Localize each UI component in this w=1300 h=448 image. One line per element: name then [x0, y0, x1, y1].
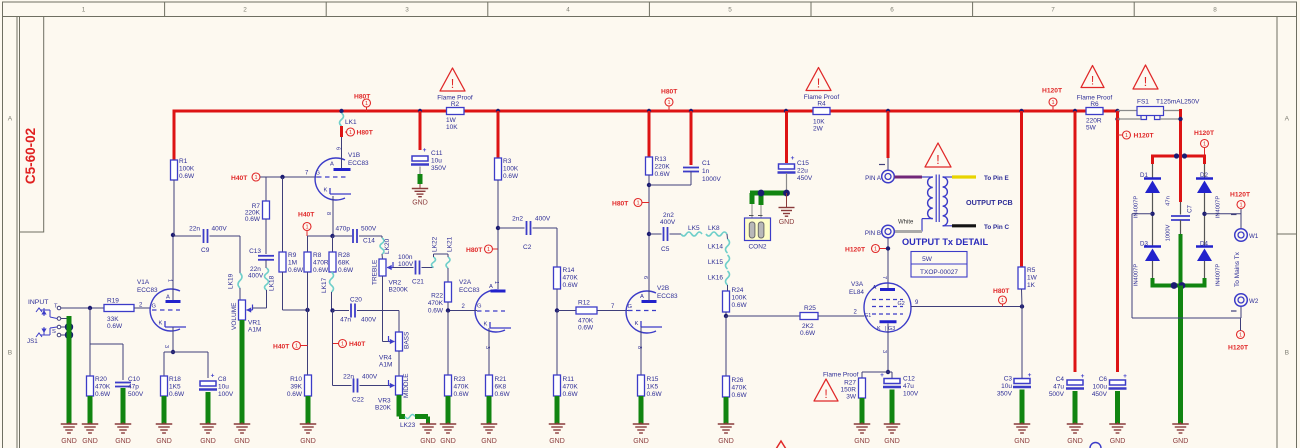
wire B+ rail — [173, 110, 1118, 113]
svg-text:0.6W: 0.6W — [563, 391, 579, 398]
wire R21 ground — [487, 396, 492, 424]
warning triangle above FS1 — [1133, 65, 1158, 89]
capacitor C15 — [778, 155, 813, 182]
svg-text:+: + — [1123, 373, 1127, 380]
wire CON2 pin leads — [749, 204, 763, 223]
svg-text:A: A — [166, 295, 170, 301]
svg-text:ECC83: ECC83 — [137, 287, 158, 294]
svg-text:|: | — [885, 326, 886, 332]
svg-text:C6: C6 — [1099, 376, 1108, 383]
label H80T LK1 — [345, 128, 374, 137]
svg-text:470K: 470K — [95, 384, 111, 391]
wire V2B anode — [642, 234, 649, 301]
svg-text:H80T: H80T — [612, 201, 629, 208]
wire C22 to VR3 wiper — [360, 385, 389, 387]
svg-text:1000V: 1000V — [1166, 224, 1172, 241]
svg-text:R1: R1 — [179, 158, 188, 165]
svg-text:+: + — [1081, 373, 1085, 380]
warning triangle bottom edge — [774, 441, 789, 448]
link LK22 — [432, 236, 449, 267]
svg-text:1: 1 — [295, 344, 298, 350]
svg-text:C21: C21 — [412, 279, 424, 286]
svg-text:INPUT: INPUT — [28, 299, 48, 306]
svg-text:1: 1 — [487, 247, 490, 253]
svg-text:1: 1 — [254, 175, 257, 181]
wire V3A G2 to R5 node — [911, 300, 1024, 309]
resistor R1 — [171, 158, 196, 180]
svg-text:0.6W: 0.6W — [563, 282, 579, 289]
ground GND C8 — [200, 422, 217, 445]
svg-text:B200K: B200K — [389, 287, 409, 294]
svg-text:1W: 1W — [1027, 275, 1038, 282]
label H120T V3A anode — [845, 245, 888, 254]
svg-text:R21: R21 — [495, 376, 507, 383]
svg-text:H120T: H120T — [1042, 88, 1063, 95]
capacitor C22 — [343, 374, 378, 404]
capacitor C3 — [997, 372, 1032, 398]
resistor R27 — [840, 378, 865, 401]
svg-text:GND: GND — [82, 438, 98, 445]
wire rail to C11 — [419, 111, 422, 150]
svg-text:68K: 68K — [338, 260, 350, 267]
svg-text:R9: R9 — [288, 252, 297, 259]
svg-text:2n2: 2n2 — [663, 212, 674, 219]
svg-text:GND: GND — [300, 438, 316, 445]
ground GND R10 — [300, 422, 317, 445]
svg-text:C3: C3 — [1004, 376, 1013, 383]
svg-text:H120T: H120T — [1228, 345, 1249, 352]
wire V2B cathode — [640, 327, 642, 375]
svg-text:VR2: VR2 — [389, 280, 402, 287]
svg-text:100n: 100n — [398, 254, 413, 261]
wire LK19 to VR1 — [239, 288, 241, 300]
svg-text:ECC83: ECC83 — [657, 293, 678, 300]
warning triangle output transformer — [925, 143, 951, 167]
svg-text:350V: 350V — [431, 165, 447, 172]
svg-text:3: 3 — [163, 345, 169, 348]
svg-text:1000V: 1000V — [702, 176, 721, 183]
resistor R20 — [87, 376, 112, 398]
resistor R12 — [576, 300, 597, 332]
svg-text:1: 1 — [167, 279, 173, 282]
warning triangle above R6 — [1081, 66, 1104, 88]
wire bridge ground — [1178, 286, 1183, 425]
svg-text:R20: R20 — [95, 376, 107, 383]
wire C22 branch — [333, 311, 352, 386]
svg-text:GND: GND — [718, 438, 734, 445]
svg-text:IN4007P: IN4007P — [1216, 264, 1222, 287]
svg-text:V2A: V2A — [459, 279, 472, 286]
triode V2B — [626, 285, 678, 349]
resistor R26 — [723, 316, 748, 399]
ground GND R20 — [82, 422, 99, 445]
wire bridge AC top — [1153, 153, 1205, 178]
svg-text:3W: 3W — [846, 394, 857, 401]
svg-text:1: 1 — [305, 225, 308, 231]
svg-text:LK8: LK8 — [708, 225, 720, 232]
svg-text:R19: R19 — [107, 298, 119, 305]
svg-text:G: G — [477, 304, 482, 310]
svg-text:GND: GND — [440, 438, 456, 445]
svg-text:C4: C4 — [1056, 376, 1065, 383]
svg-text:1: 1 — [667, 100, 670, 106]
svg-text:6: 6 — [642, 276, 648, 279]
svg-text:GND: GND — [61, 438, 77, 445]
connector CON2 — [745, 218, 771, 251]
svg-text:C9: C9 — [201, 247, 210, 254]
wire bridge mid right — [1202, 193, 1206, 247]
label H80T V2A anode — [466, 245, 498, 254]
svg-text:R28: R28 — [338, 252, 350, 259]
warning triangle above R2 — [440, 68, 465, 91]
resistor R13 — [646, 156, 671, 178]
resistor R3 — [495, 158, 520, 180]
svg-text:0.6W: 0.6W — [578, 325, 594, 332]
svg-text:OUTPUT PCB: OUTPUT PCB — [966, 198, 1013, 207]
svg-text:H120T: H120T — [1194, 130, 1215, 137]
drawing number box C5-60-02 — [20, 17, 44, 233]
wire VR1 wiper — [253, 307, 267, 309]
svg-text:D2: D2 — [1200, 172, 1208, 179]
svg-text:R14: R14 — [563, 267, 575, 274]
svg-text:TXOP-00027: TXOP-00027 — [920, 269, 958, 276]
wire C8 ground — [206, 392, 211, 424]
svg-text:+: + — [211, 373, 215, 380]
svg-text:10K: 10K — [813, 119, 825, 126]
link LK21 — [446, 236, 454, 268]
svg-text:GND: GND — [1014, 438, 1030, 445]
svg-text:R11: R11 — [563, 376, 575, 383]
ground GND R11 — [549, 422, 566, 445]
svg-text:100u: 100u — [1093, 384, 1108, 391]
svg-text:GND: GND — [854, 438, 870, 445]
diode D1 — [1134, 172, 1162, 218]
svg-text:1: 1 — [365, 101, 368, 107]
wire bridge right to W1 — [1205, 209, 1242, 229]
connector W2 — [1231, 294, 1259, 311]
wire C15 to ground bus — [786, 173, 788, 193]
svg-text:GND: GND — [115, 438, 131, 445]
wire C20 to VR4 — [357, 311, 399, 333]
connector JS1 input jack — [27, 299, 61, 345]
svg-text:G: G — [628, 304, 633, 310]
svg-text:220K: 220K — [655, 164, 671, 171]
svg-text:1: 1 — [1239, 333, 1242, 339]
svg-text:400V: 400V — [248, 273, 264, 280]
wire R5 to node — [1021, 289, 1024, 307]
svg-text:1: 1 — [874, 247, 877, 253]
wire V2A cathode — [488, 328, 490, 375]
svg-text:4: 4 — [566, 7, 570, 14]
wire R23 ground — [446, 396, 451, 424]
svg-text:GND: GND — [234, 438, 250, 445]
svg-text:100K: 100K — [503, 166, 519, 173]
svg-text:V1B: V1B — [348, 152, 360, 159]
svg-text:Flame Proof: Flame Proof — [823, 372, 859, 379]
ground GND C6 — [1109, 422, 1126, 445]
wire R26 ground — [724, 397, 729, 424]
svg-text:100K: 100K — [179, 166, 195, 173]
wire R9 bottom — [283, 272, 310, 312]
svg-text:47u: 47u — [1053, 384, 1064, 391]
svg-text:6: 6 — [335, 147, 341, 150]
svg-text:C2: C2 — [523, 244, 532, 251]
label H40T cathode V1B — [298, 212, 315, 237]
wire C4 ground — [1073, 391, 1078, 424]
svg-text:450V: 450V — [797, 175, 813, 182]
resistor R21 — [486, 375, 511, 398]
wire bridge left loop — [1132, 214, 1241, 318]
svg-text:!: ! — [451, 77, 455, 91]
label OUTPUT Tx DETAIL — [902, 237, 988, 247]
svg-text:1M: 1M — [288, 260, 297, 267]
wire primary purple — [895, 176, 923, 179]
svg-text:VR3: VR3 — [378, 398, 391, 405]
wire R14 node — [555, 289, 576, 313]
wire rail to C4 — [1074, 111, 1077, 372]
wire LK20 to VR2 — [381, 254, 384, 259]
label H120T W1 — [1230, 192, 1251, 209]
svg-text:470K: 470K — [428, 300, 444, 307]
wire rail to R3 — [497, 111, 500, 158]
svg-text:450V: 450V — [1092, 391, 1108, 398]
wire node to C3 — [1021, 307, 1023, 379]
ground GND R27 — [854, 422, 871, 445]
svg-text:R8: R8 — [313, 252, 322, 259]
wire R25 to V3A G1 — [818, 310, 864, 317]
svg-text:LK23: LK23 — [400, 422, 416, 429]
wire C2 to R14 — [533, 228, 558, 267]
ground GND R18 — [156, 422, 173, 445]
svg-text:A: A — [8, 116, 13, 123]
link LK16 — [708, 271, 730, 285]
wire secondary yellow — [952, 175, 976, 178]
svg-text:!: ! — [936, 152, 940, 167]
ground GND C12 — [884, 422, 901, 445]
svg-text:100V: 100V — [903, 391, 919, 398]
capacitor C2 — [498, 216, 551, 252]
ground GND C15 — [779, 193, 795, 226]
wire C14 to LK20 — [359, 236, 382, 238]
svg-text:H80T: H80T — [466, 247, 483, 254]
wire VR4 to VR3 — [398, 351, 400, 376]
wire R24 node — [724, 312, 800, 318]
wire C12 ground — [890, 390, 895, 425]
resistor R11 — [554, 311, 579, 399]
fuse FS1 — [1118, 99, 1201, 120]
svg-text:0.6W: 0.6W — [338, 267, 354, 274]
resistor R9 — [279, 177, 304, 274]
svg-text:C10: C10 — [128, 376, 140, 383]
wire rail to PIN A — [879, 111, 888, 170]
wire C21 out — [422, 267, 434, 269]
label H40T C22 node — [333, 340, 367, 349]
svg-text:GND: GND — [1173, 438, 1189, 445]
svg-text:500V: 500V — [361, 226, 377, 233]
svg-text:H40T: H40T — [298, 212, 315, 219]
svg-text:0.6W: 0.6W — [800, 330, 816, 337]
svg-text:2: 2 — [243, 7, 247, 14]
svg-text:R25: R25 — [804, 305, 816, 312]
wire input ground — [67, 316, 72, 424]
svg-text:K: K — [635, 321, 639, 327]
label H80T R13 node — [612, 199, 649, 208]
svg-text:R18: R18 — [169, 376, 181, 383]
svg-text:+: + — [423, 147, 427, 154]
svg-text:2n2: 2n2 — [512, 216, 523, 223]
ground GND R21 — [481, 422, 498, 445]
ground GND input — [61, 422, 78, 445]
svg-text:100K: 100K — [732, 295, 748, 302]
svg-text:0.6W: 0.6W — [169, 391, 185, 398]
wire V3A cathode node — [862, 324, 892, 379]
warning triangle above R4 — [806, 68, 831, 91]
wire C10 ground — [121, 388, 126, 424]
svg-text:1n: 1n — [702, 168, 710, 175]
svg-text:A: A — [330, 162, 334, 168]
svg-text:H40T: H40T — [231, 175, 248, 182]
ground GND C11 — [412, 184, 428, 207]
svg-text:GND: GND — [633, 438, 649, 445]
svg-text:T125mAL250V: T125mAL250V — [1156, 99, 1200, 106]
svg-text:VOLUME: VOLUME — [231, 302, 238, 330]
svg-text:GND: GND — [1110, 438, 1126, 445]
capacitor C4 — [1049, 373, 1085, 398]
wire R10 ground — [306, 396, 311, 424]
wire jack sleeve to ground bus — [61, 319, 73, 340]
svg-text:10u: 10u — [431, 158, 442, 165]
triode V2A — [459, 279, 511, 349]
wire R18 ground — [162, 396, 167, 424]
link LK20 — [380, 238, 391, 254]
svg-text:V2B: V2B — [657, 285, 669, 292]
wire rail to C15 — [785, 111, 788, 163]
svg-text:C22: C22 — [352, 397, 364, 404]
svg-text:C5-60-02: C5-60-02 — [23, 128, 38, 184]
capacitor C12 — [880, 372, 919, 398]
svg-text:5W: 5W — [922, 256, 933, 263]
svg-text:1: 1 — [1001, 298, 1004, 304]
wire V2A grid — [448, 304, 477, 311]
wire primary white — [895, 220, 923, 232]
svg-text:400V: 400V — [212, 226, 228, 233]
resistor R6 — [1077, 95, 1113, 132]
svg-text:R6: R6 — [1090, 101, 1099, 108]
diode D4 — [1196, 241, 1222, 287]
svg-text:K: K — [484, 322, 488, 328]
label H120T rail right — [1042, 88, 1063, 112]
svg-text:10u: 10u — [218, 384, 229, 391]
svg-text:!: ! — [1144, 74, 1148, 89]
svg-text:!: ! — [1091, 73, 1094, 87]
wire PIN B to V3A anode — [881, 238, 890, 288]
wire LK1 red stub — [340, 126, 343, 137]
wire fuse alternate path — [1118, 118, 1181, 120]
link LK8 — [706, 225, 727, 236]
ground GND bridge — [1172, 422, 1189, 445]
svg-text:EL84: EL84 — [849, 289, 864, 296]
svg-text:0.6W: 0.6W — [495, 391, 511, 398]
svg-text:D1: D1 — [1140, 172, 1148, 179]
svg-text:H120T: H120T — [845, 247, 866, 254]
svg-text:GND: GND — [549, 438, 565, 445]
resistor R8 — [304, 236, 329, 274]
svg-text:To Mains Tx: To Mains Tx — [1234, 251, 1241, 287]
svg-text:C12: C12 — [903, 376, 915, 383]
svg-text:0.6W: 0.6W — [107, 323, 123, 330]
svg-text:0.6W: 0.6W — [313, 267, 329, 274]
svg-text:To Pin C: To Pin C — [984, 224, 1010, 231]
svg-text:LK14: LK14 — [708, 244, 724, 251]
wire secondary black — [952, 224, 976, 227]
wire rail to R13 — [648, 111, 651, 157]
label H80T rail mid — [661, 89, 678, 112]
svg-text:LK21: LK21 — [447, 236, 454, 252]
label To Mains Tx — [1234, 251, 1241, 287]
svg-text:400V: 400V — [361, 317, 377, 324]
svg-text:LK20: LK20 — [384, 238, 391, 254]
label H40T R10 node — [273, 342, 308, 351]
svg-text:470R: 470R — [313, 260, 329, 267]
svg-text:To Pin E: To Pin E — [984, 175, 1009, 182]
resistor R7 — [245, 177, 270, 223]
ground GND C4 — [1067, 422, 1084, 445]
svg-text:!: ! — [817, 76, 821, 90]
svg-text:A1M: A1M — [379, 362, 392, 369]
svg-text:GND: GND — [481, 438, 497, 445]
diode D3 — [1134, 241, 1162, 287]
svg-text:5W: 5W — [1086, 125, 1097, 132]
svg-text:K: K — [159, 321, 163, 327]
svg-text:H120T: H120T — [1230, 192, 1251, 199]
svg-text:TREBLE: TREBLE — [372, 259, 379, 285]
svg-text:A: A — [1285, 116, 1290, 123]
svg-text:C11: C11 — [431, 150, 443, 157]
wire R19 to V1A grid — [134, 303, 151, 309]
svg-text:R4: R4 — [817, 101, 826, 108]
svg-text:MIDDLE: MIDDLE — [403, 373, 410, 398]
link LK14 — [708, 234, 730, 253]
wire R13 node — [647, 175, 651, 236]
svg-text:3: 3 — [881, 350, 887, 353]
svg-text:22n: 22n — [343, 374, 354, 381]
svg-text:1: 1 — [1051, 100, 1054, 106]
label To Pin C — [984, 224, 1010, 231]
svg-text:+: + — [791, 155, 795, 162]
svg-text:VR1: VR1 — [248, 320, 261, 327]
resistor R4 — [804, 94, 840, 133]
potentiometer VR3 MIDDLE — [375, 373, 410, 412]
svg-text:8: 8 — [1213, 7, 1217, 14]
wire VR1 ground — [240, 320, 245, 424]
wire rail to R5 — [1020, 111, 1023, 267]
svg-text:39K: 39K — [290, 384, 302, 391]
svg-text:GND: GND — [884, 438, 900, 445]
svg-text:B: B — [1285, 350, 1290, 357]
label Flame Proof R27 — [823, 372, 859, 379]
svg-text:47p: 47p — [128, 384, 139, 391]
svg-text:IN4007P: IN4007P — [1134, 264, 1140, 287]
wire LK16 to R24 — [727, 285, 729, 291]
diode D2 — [1196, 172, 1222, 218]
wire rail to C1 — [690, 111, 693, 165]
link LK17 — [321, 272, 334, 293]
svg-text:10u: 10u — [1001, 383, 1012, 390]
svg-text:GND: GND — [779, 219, 795, 226]
svg-text:White: White — [898, 220, 914, 226]
svg-text:1: 1 — [82, 7, 86, 14]
svg-text:PIN B: PIN B — [865, 230, 881, 237]
